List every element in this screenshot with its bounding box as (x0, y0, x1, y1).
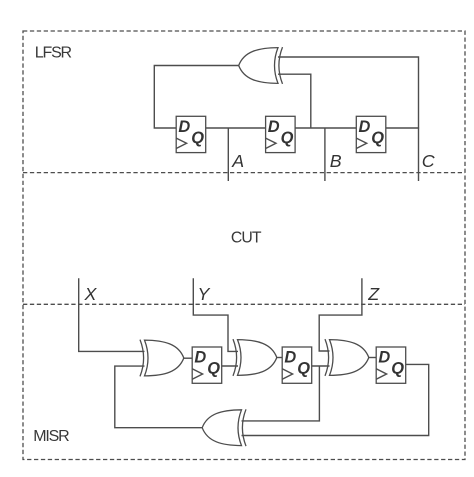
svg-text:Y: Y (198, 284, 211, 304)
D flip-flop DFF4 (192, 347, 222, 383)
svg-text:LFSR: LFSR (35, 45, 72, 62)
wire: LFSR feedback from node C up and left to XOR top input (278, 57, 419, 128)
wire: DFF2 Q to DFF3 D (295, 127, 356, 129)
xor gate LFSR (facing left) (239, 47, 283, 84)
svg-text:X: X (84, 284, 98, 304)
xor gate MISR XOR1 (140, 340, 184, 377)
wire: XOR1 output to DFF4 D (184, 357, 193, 359)
svg-text:B: B (330, 151, 342, 171)
wire: Y into MISR XOR2 top input (193, 278, 238, 351)
svg-text:C: C (422, 151, 435, 171)
xor gate MISR feedback (facing left) (202, 409, 246, 446)
wire: XOR2 output to DFF5 D (277, 357, 282, 359)
svg-text:MISR: MISR (33, 428, 69, 445)
wire: DFF1 Q to DFF2 D (206, 127, 266, 129)
wire: node B drop line (324, 128, 326, 181)
wire: LFSR XOR output to DFF1 D input (154, 66, 238, 129)
dashed divider CUT/MISR (23, 303, 465, 305)
wire: XOR3 output to DFF6 D (369, 357, 377, 359)
xor gate MISR XOR2 (233, 339, 277, 376)
wire: Z into MISR XOR3 top input (319, 278, 362, 351)
wire: LFSR XOR bottom input tap from node B wire (278, 74, 311, 128)
D flip-flop DFF6 (376, 347, 406, 383)
D flip-flop DFF5 (282, 347, 312, 383)
svg-text:CUT: CUT (231, 230, 262, 247)
dashed divider LFSR/CUT (23, 172, 465, 174)
xor gate MISR XOR3 (325, 339, 369, 376)
svg-text:A: A (231, 151, 244, 171)
wire: X into MISR XOR1 top input (79, 278, 145, 351)
wire: node A drop line (227, 128, 229, 181)
svg-text:Z: Z (367, 284, 380, 304)
wire: DFF4 Q to XOR2 bottom input (222, 365, 238, 367)
D flip-flop DFF1 (176, 116, 206, 152)
D flip-flop DFF3 (356, 116, 386, 152)
wire: bottom XOR output up to XOR1 bottom input (115, 366, 202, 428)
wire: DFF5 Q to XOR3 bottom input with tap down to bottom XOR top input (242, 366, 330, 421)
wire: DFF6 Q feedback down and left to bottom XOR bottom input (242, 364, 429, 435)
wire: DFF3 Q to node C (386, 127, 419, 129)
D flip-flop DFF2 (266, 116, 296, 152)
wire: node C drop line (418, 128, 420, 181)
